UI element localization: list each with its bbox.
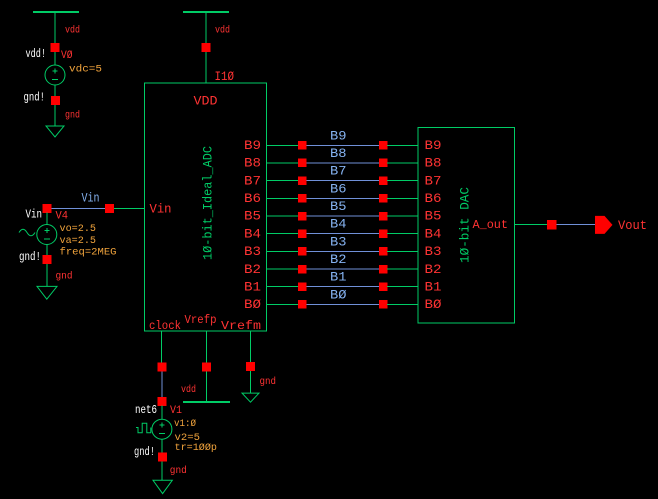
wire B7 from ADC bbox=[267, 180, 299, 182]
svg-text:B4: B4 bbox=[330, 217, 347, 232]
svg-text:vdd!: vdd! bbox=[26, 47, 47, 61]
DAC pin label B1 bbox=[425, 279, 442, 294]
net name gnd! bbox=[134, 445, 155, 459]
svg-text:B3: B3 bbox=[244, 244, 261, 259]
pin square VDD supply bbox=[201, 43, 210, 52]
pin square Vrefm bbox=[246, 362, 255, 371]
svg-text:Vin: Vin bbox=[26, 208, 43, 222]
junction square B7 left bbox=[298, 176, 307, 185]
svg-text:B6: B6 bbox=[244, 191, 261, 206]
wire Vin to ADC bbox=[114, 208, 145, 210]
svg-text:B5: B5 bbox=[330, 199, 347, 214]
junction square B5 right bbox=[379, 212, 388, 221]
instance name V0 bbox=[61, 50, 73, 62]
svg-text:gnd!: gnd! bbox=[19, 250, 41, 264]
pin label Vrefp bbox=[185, 313, 217, 327]
pin label clock bbox=[149, 319, 181, 333]
wire B6 to DAC bbox=[387, 197, 418, 199]
junction square B2 left bbox=[298, 265, 307, 274]
svg-text:Vrefm: Vrefm bbox=[221, 319, 261, 333]
svg-text:B3: B3 bbox=[330, 234, 347, 249]
value label v1:0 bbox=[174, 418, 196, 430]
net name gnd! bbox=[24, 91, 46, 105]
wire B8 to DAC bbox=[387, 162, 418, 164]
wire BØ from ADC bbox=[267, 303, 299, 305]
net label gnd bbox=[65, 110, 80, 122]
svg-text:vo=2.5: vo=2.5 bbox=[60, 223, 97, 235]
svg-text:BØ: BØ bbox=[330, 287, 347, 302]
junction square B3 left bbox=[298, 247, 307, 256]
wire B5 net segment bbox=[307, 215, 379, 217]
svg-text:B7: B7 bbox=[425, 173, 442, 188]
wire vdd rail to ADC VDD pin bbox=[205, 12, 207, 83]
svg-text:B1: B1 bbox=[425, 279, 442, 294]
wire B2 to DAC bbox=[387, 268, 418, 270]
ADC pin label B4 bbox=[244, 226, 261, 241]
svg-text:vdd: vdd bbox=[215, 25, 230, 37]
svg-text:BØ: BØ bbox=[244, 297, 261, 312]
svg-text:net6: net6 bbox=[135, 403, 157, 417]
wire B1 net segment bbox=[307, 286, 379, 288]
net name gnd! bbox=[19, 250, 41, 264]
ADC pin label B9 bbox=[244, 138, 261, 153]
svg-text:B2: B2 bbox=[244, 262, 261, 277]
svg-text:B7: B7 bbox=[330, 164, 347, 179]
net label B9 bbox=[330, 128, 347, 143]
wire Vin net segment bbox=[51, 208, 105, 210]
net name net6 bbox=[135, 403, 157, 417]
DAC pin label B7 bbox=[425, 173, 442, 188]
DAC pin label B8 bbox=[425, 156, 442, 171]
DAC pin label BØ bbox=[425, 297, 442, 312]
wire net6 segment bbox=[161, 371, 163, 397]
net label BØ bbox=[330, 287, 347, 302]
wire B4 to DAC bbox=[387, 233, 418, 235]
net label vdd bbox=[215, 25, 230, 37]
instance name I10 bbox=[215, 69, 235, 84]
ground symbol (V4) bbox=[37, 286, 57, 299]
svg-text:B2: B2 bbox=[425, 262, 442, 277]
svg-text:V1: V1 bbox=[170, 405, 182, 417]
wire V1 minus to ground bbox=[161, 439, 163, 480]
wire Vrefm down bbox=[249, 331, 251, 393]
wire V1 plus stem bbox=[161, 406, 163, 420]
svg-text:B8: B8 bbox=[244, 156, 261, 171]
svg-text:VDD: VDD bbox=[194, 94, 218, 109]
svg-text:1Ø-bit_Ideal_ADC: 1Ø-bit_Ideal_ADC bbox=[201, 146, 216, 260]
svg-text:vdd: vdd bbox=[65, 25, 80, 37]
net label B1 bbox=[330, 270, 347, 285]
pin square Vrefp bbox=[202, 363, 211, 372]
pin square V0 plus bbox=[51, 43, 60, 52]
ground symbol (V0) bbox=[46, 126, 64, 137]
net label B4 bbox=[330, 217, 347, 232]
pin label A_out bbox=[473, 218, 509, 232]
svg-text:B5: B5 bbox=[244, 209, 261, 224]
pin square V0 minus bbox=[51, 96, 60, 105]
DAC pin label B4 bbox=[425, 226, 442, 241]
wire B3 from ADC bbox=[267, 250, 299, 252]
svg-text:B3: B3 bbox=[425, 244, 442, 259]
svg-text:B2: B2 bbox=[330, 252, 347, 267]
svg-text:B5: B5 bbox=[425, 209, 442, 224]
ground symbol (V1) bbox=[153, 480, 172, 493]
vdd rail (Vrefp) bbox=[183, 401, 230, 403]
wire B7 net segment bbox=[307, 180, 379, 182]
wire A_out bbox=[515, 224, 548, 226]
junction square B8 left bbox=[298, 159, 307, 168]
svg-text:B1: B1 bbox=[244, 279, 261, 294]
wire B1 to DAC bbox=[387, 286, 418, 288]
svg-text:A_out: A_out bbox=[473, 218, 509, 232]
ADC pin label B8 bbox=[244, 156, 261, 171]
pin label VDD bbox=[194, 94, 218, 109]
ADC pin label BØ bbox=[244, 297, 261, 312]
pin square clock bbox=[158, 363, 167, 372]
wire V0 minus to ground bbox=[54, 85, 56, 126]
wire B2 from ADC bbox=[267, 268, 299, 270]
net label gnd bbox=[170, 465, 187, 477]
value label tr=100p bbox=[175, 442, 218, 454]
vdd rail (V0 branch) bbox=[33, 11, 79, 13]
value label freq=2MEG bbox=[60, 247, 117, 259]
svg-text:BØ: BØ bbox=[425, 297, 442, 312]
junction square B3 right bbox=[379, 247, 388, 256]
svg-text:B9: B9 bbox=[244, 138, 261, 153]
output port Vout bbox=[595, 216, 613, 234]
wire B1 from ADC bbox=[267, 286, 299, 288]
value label vo=2.5 bbox=[60, 223, 97, 235]
net label B3 bbox=[330, 234, 347, 249]
net label vdd bbox=[181, 384, 196, 396]
svg-text:Vrefp: Vrefp bbox=[185, 313, 217, 327]
svg-text:tr=1ØØp: tr=1ØØp bbox=[175, 442, 218, 454]
DAC pin label B9 bbox=[425, 138, 442, 153]
svg-text:Vin: Vin bbox=[82, 191, 100, 206]
voltage source V1 (pulse) bbox=[136, 419, 172, 439]
wire B8 from ADC bbox=[267, 162, 299, 164]
wire Vrefp down bbox=[205, 331, 207, 401]
value label va=2.5 bbox=[60, 235, 97, 247]
wire B9 from ADC bbox=[267, 144, 299, 146]
junction square B8 right bbox=[379, 159, 388, 168]
wire B4 net segment bbox=[307, 233, 379, 235]
svg-text:gnd: gnd bbox=[170, 465, 187, 477]
net label B5 bbox=[330, 199, 347, 214]
junction square B9 left bbox=[298, 141, 307, 150]
junction square BØ left bbox=[298, 300, 307, 309]
pin square V4 minus bbox=[42, 255, 51, 264]
ADC pin label B7 bbox=[244, 173, 261, 188]
DAC pin label B6 bbox=[425, 191, 442, 206]
junction square BØ right bbox=[379, 300, 388, 309]
svg-text:Vin: Vin bbox=[150, 202, 172, 217]
cell name 10-bit_Ideal_ADC bbox=[201, 146, 216, 260]
junction square B7 right bbox=[379, 176, 388, 185]
junction square Vin bbox=[105, 204, 114, 213]
net label gnd bbox=[260, 376, 277, 388]
port label Vout bbox=[618, 218, 647, 233]
wire B3 to DAC bbox=[387, 250, 418, 252]
svg-text:gnd!: gnd! bbox=[24, 91, 46, 105]
wire clock down bbox=[161, 331, 163, 363]
ADC pin label B5 bbox=[244, 209, 261, 224]
wire B4 from ADC bbox=[267, 233, 299, 235]
junction square B2 right bbox=[379, 265, 388, 274]
ADC pin label B1 bbox=[244, 279, 261, 294]
wire B6 net segment bbox=[307, 197, 379, 199]
wire B8 net segment bbox=[307, 162, 379, 164]
net label B6 bbox=[330, 181, 347, 196]
wire B9 to DAC bbox=[387, 144, 418, 146]
junction square B6 right bbox=[379, 194, 388, 203]
wire V4 plus stem bbox=[46, 213, 48, 225]
ADC pin label B3 bbox=[244, 244, 261, 259]
value label v2=5 bbox=[175, 432, 201, 444]
svg-text:vdd: vdd bbox=[181, 384, 196, 396]
svg-text:B9: B9 bbox=[330, 128, 347, 143]
svg-text:va=2.5: va=2.5 bbox=[60, 235, 97, 247]
svg-text:B1: B1 bbox=[330, 270, 347, 285]
pin square V1 plus bbox=[158, 397, 167, 406]
junction square B6 left bbox=[298, 194, 307, 203]
svg-text:V4: V4 bbox=[56, 211, 69, 223]
svg-text:B8: B8 bbox=[425, 156, 442, 171]
wire V4 minus to ground bbox=[46, 245, 48, 287]
svg-text:v1:Ø: v1:Ø bbox=[174, 418, 196, 430]
net label B2 bbox=[330, 252, 347, 267]
net label Vin (blue) bbox=[82, 191, 100, 206]
net name Vin (white) bbox=[26, 208, 43, 222]
junction square B5 left bbox=[298, 212, 307, 221]
net label B8 bbox=[330, 146, 347, 161]
wire Vout net bbox=[557, 224, 595, 226]
svg-text:B4: B4 bbox=[425, 226, 442, 241]
cell name 10-bit DAC bbox=[458, 187, 473, 263]
svg-text:gnd: gnd bbox=[56, 270, 73, 282]
svg-text:B4: B4 bbox=[244, 226, 261, 241]
DAC pin label B2 bbox=[425, 262, 442, 277]
junction square B1 left bbox=[298, 283, 307, 292]
svg-text:B8: B8 bbox=[330, 146, 347, 161]
DAC pin label B3 bbox=[425, 244, 442, 259]
net label vdd bbox=[65, 25, 80, 37]
voltage source V4 (sine) bbox=[19, 225, 57, 245]
pin label Vin bbox=[150, 202, 172, 217]
instance name V4 bbox=[56, 211, 69, 223]
ADC pin label B6 bbox=[244, 191, 261, 206]
ground symbol (Vrefm) bbox=[242, 393, 259, 402]
wire B2 net segment bbox=[307, 268, 379, 270]
svg-text:B7: B7 bbox=[244, 173, 261, 188]
wire B9 net segment bbox=[307, 144, 379, 146]
net label B7 bbox=[330, 164, 347, 179]
pin label Vrefm bbox=[221, 319, 261, 333]
DAC pin label B5 bbox=[425, 209, 442, 224]
wire B7 to DAC bbox=[387, 180, 418, 182]
svg-text:gnd: gnd bbox=[260, 376, 277, 388]
svg-text:Vout: Vout bbox=[618, 218, 647, 233]
wire vdd rail to V0 plus bbox=[54, 12, 56, 66]
instance name V1 bbox=[170, 405, 182, 417]
ADC instance I10 (10-bit_Ideal_ADC) body bbox=[145, 83, 267, 331]
wire BØ to DAC bbox=[387, 303, 418, 305]
pin square V4 plus bbox=[42, 204, 51, 213]
voltage source V0 bbox=[45, 65, 65, 85]
junction square B4 left bbox=[298, 230, 307, 239]
net name vdd! bbox=[26, 47, 47, 61]
junction square B1 right bbox=[379, 283, 388, 292]
svg-text:gnd: gnd bbox=[65, 110, 80, 122]
junction square B9 right bbox=[379, 141, 388, 150]
value label vdc=5 bbox=[69, 64, 102, 76]
svg-text:vdc=5: vdc=5 bbox=[69, 64, 102, 76]
svg-text:gnd!: gnd! bbox=[134, 445, 155, 459]
pin square V1 minus bbox=[158, 453, 167, 462]
DAC instance (10-bit DAC) body bbox=[418, 128, 515, 323]
svg-text:clock: clock bbox=[149, 319, 181, 333]
wire B5 from ADC bbox=[267, 215, 299, 217]
svg-text:VØ: VØ bbox=[61, 50, 73, 62]
svg-text:1Ø-bit DAC: 1Ø-bit DAC bbox=[458, 187, 473, 263]
junction square A_out bbox=[547, 220, 557, 230]
wire B3 net segment bbox=[307, 250, 379, 252]
net label gnd bbox=[56, 270, 73, 282]
ADC pin label B2 bbox=[244, 262, 261, 277]
svg-text:B9: B9 bbox=[425, 138, 442, 153]
svg-text:I1Ø: I1Ø bbox=[215, 69, 235, 84]
wire BØ net segment bbox=[307, 303, 379, 305]
junction square B4 right bbox=[379, 230, 388, 239]
svg-text:B6: B6 bbox=[330, 181, 347, 196]
vdd rail (I10) bbox=[183, 11, 229, 13]
svg-text:B6: B6 bbox=[425, 191, 442, 206]
wire B6 from ADC bbox=[267, 197, 299, 199]
svg-text:freq=2MEG: freq=2MEG bbox=[60, 247, 117, 259]
wire B5 to DAC bbox=[387, 215, 418, 217]
